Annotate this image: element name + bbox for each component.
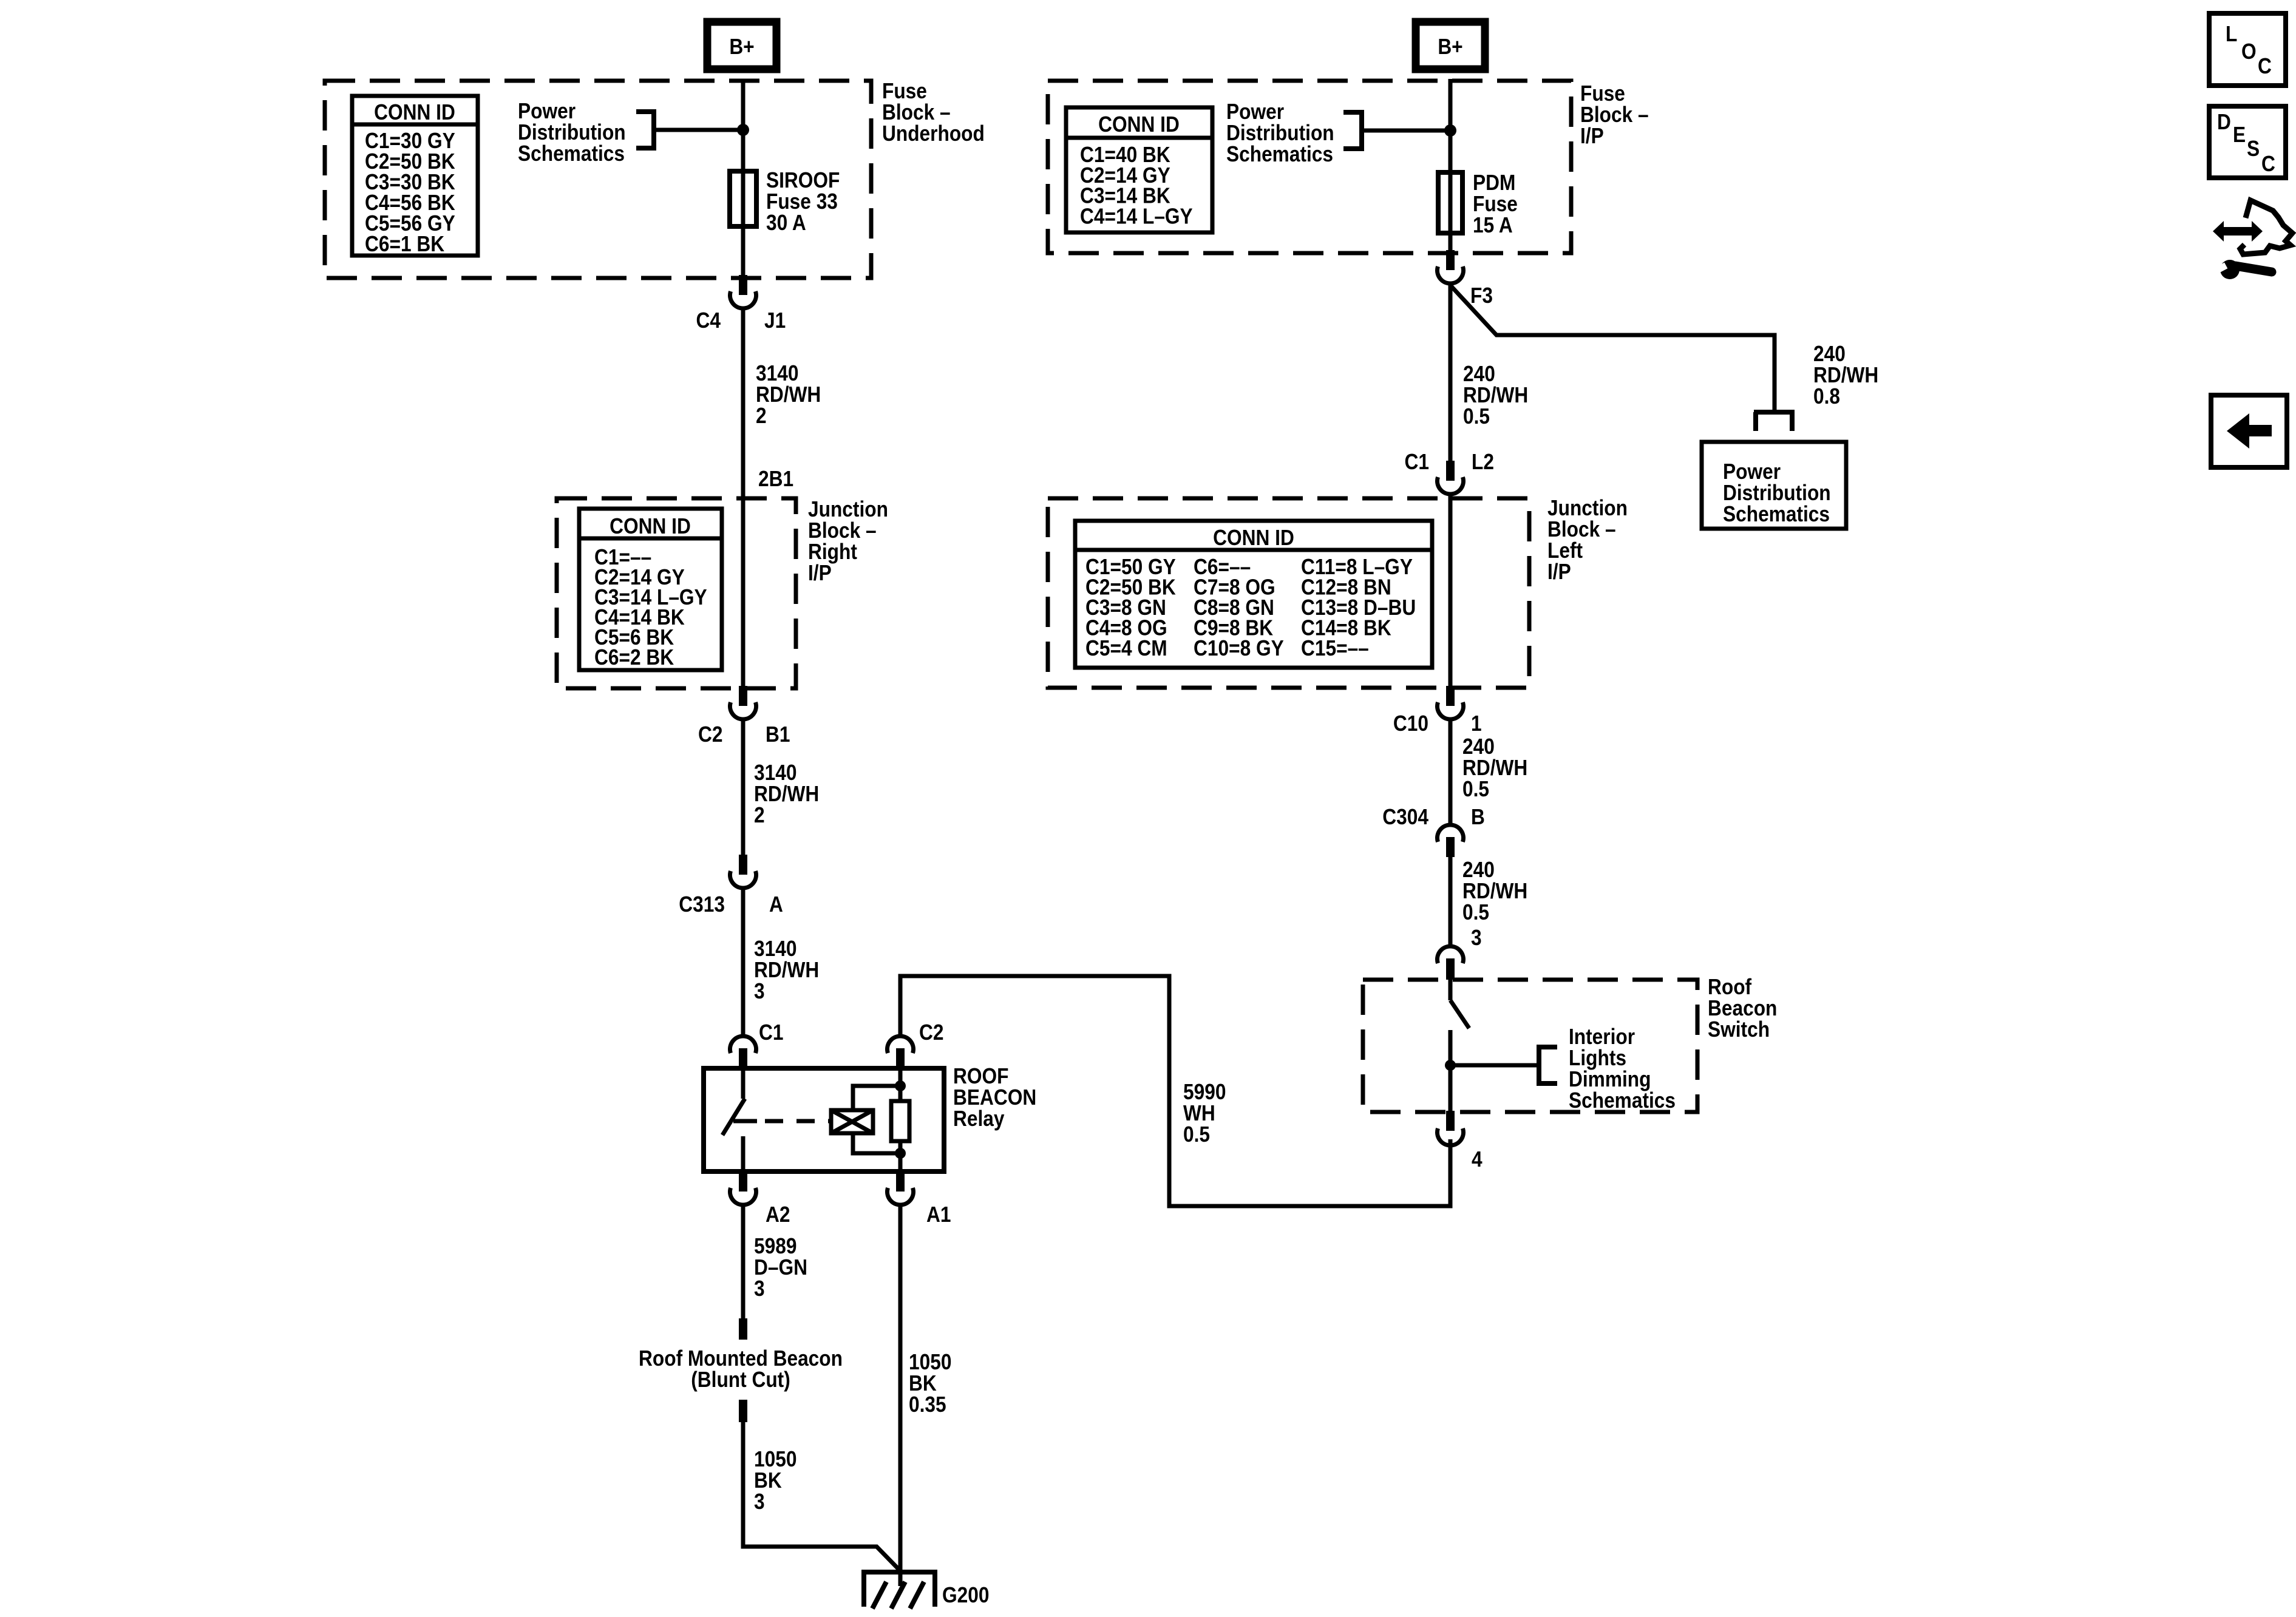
svg-text:B+: B+ bbox=[729, 35, 754, 59]
svg-text:C5=4 CM: C5=4 CM bbox=[1085, 636, 1167, 660]
switch wire to pin 4 bbox=[1449, 1030, 1453, 1112]
svg-text:A: A bbox=[769, 892, 783, 917]
svg-text:CONN ID: CONN ID bbox=[374, 100, 455, 124]
conn id table (junction block left i/p) bbox=[1075, 521, 1432, 668]
wire bracket to node bbox=[654, 128, 743, 132]
connector C1 / L2 bbox=[1446, 461, 1455, 481]
conn id table (junction block right i/p) bbox=[579, 509, 722, 670]
bracket to interior lights dimming bbox=[1539, 1045, 1557, 1086]
svg-text:CONN ID: CONN ID bbox=[1213, 526, 1294, 550]
svg-text:L: L bbox=[2226, 22, 2237, 46]
svg-text:0.5: 0.5 bbox=[1462, 777, 1489, 801]
connector C1 (relay) bbox=[730, 1036, 756, 1053]
svg-text:F3: F3 bbox=[1470, 283, 1493, 308]
svg-text:0.8: 0.8 bbox=[1813, 384, 1840, 408]
svg-text:O: O bbox=[2241, 39, 2257, 64]
wire 3140 RD/WH 2 (segment 2) bbox=[741, 719, 746, 856]
svg-text:1: 1 bbox=[1471, 711, 1482, 736]
connector A2 bbox=[739, 1171, 747, 1192]
svg-text:I/P: I/P bbox=[1547, 560, 1571, 584]
svg-text:Switch: Switch bbox=[1708, 1017, 1770, 1042]
switch contact stub bbox=[1449, 980, 1453, 1000]
svg-text:A2: A2 bbox=[766, 1202, 790, 1227]
connector C2 (relay) bbox=[888, 1036, 914, 1053]
svg-text:C304: C304 bbox=[1382, 805, 1428, 829]
icon wrench bbox=[2220, 260, 2240, 279]
svg-text:C2: C2 bbox=[698, 722, 722, 747]
junction dot on B+ feed (right) bbox=[1444, 124, 1456, 137]
coil lead top bbox=[853, 1086, 900, 1110]
wire 240 RD/WH 0.5 (to C1) bbox=[1449, 283, 1453, 461]
svg-text:Schematics: Schematics bbox=[518, 141, 625, 166]
svg-text:0.5: 0.5 bbox=[1463, 404, 1490, 429]
junction block - left i/p dashed box bbox=[1048, 498, 1529, 688]
svg-text:3: 3 bbox=[754, 979, 765, 1003]
icon vehicle view with arrow bbox=[2213, 221, 2263, 242]
fuse PDM 15A bbox=[1449, 175, 1453, 233]
svg-text:S: S bbox=[2247, 137, 2260, 161]
icon back arrow box bbox=[2211, 395, 2287, 467]
svg-text:0.5: 0.5 bbox=[1462, 900, 1489, 924]
wire 240 RD/WH 0.5 (segment 3) bbox=[1449, 857, 1453, 946]
svg-text:C4: C4 bbox=[696, 308, 721, 333]
conn id table (fuse block i/p) bbox=[1066, 107, 1212, 232]
connector C10 / 1 bbox=[1446, 686, 1455, 706]
blunt cut end (lower) bbox=[739, 1400, 747, 1422]
svg-text:I/P: I/P bbox=[808, 561, 832, 585]
svg-text:C6=1 BK: C6=1 BK bbox=[365, 232, 445, 256]
svg-text:G200: G200 bbox=[942, 1583, 989, 1607]
svg-text:Schematics: Schematics bbox=[1226, 142, 1333, 166]
icon DESC box bbox=[2209, 106, 2286, 178]
svg-text:CONN ID: CONN ID bbox=[1098, 112, 1180, 137]
svg-text:J1: J1 bbox=[764, 308, 786, 333]
svg-text:B: B bbox=[1471, 805, 1485, 829]
svg-text:15 A: 15 A bbox=[1473, 213, 1513, 237]
power symbol B+ (right) bbox=[1416, 22, 1485, 69]
bracket to power distribution (right) bbox=[1343, 110, 1362, 151]
resistor (relay internal) bbox=[891, 1101, 909, 1141]
connector F3 bbox=[1446, 250, 1455, 270]
svg-text:C2: C2 bbox=[919, 1020, 943, 1045]
relay ROOF BEACON box bbox=[704, 1068, 944, 1171]
svg-text:C: C bbox=[2261, 152, 2275, 176]
wire 1050 BK 3 bbox=[743, 1422, 899, 1570]
conn id table (fuse block underhood) bbox=[352, 96, 478, 256]
svg-text:C4=14 L–GY: C4=14 L–GY bbox=[1080, 205, 1193, 229]
relay switch blade bbox=[722, 1099, 745, 1135]
wire pin 4 down bbox=[1449, 1145, 1453, 1208]
power symbol B+ (left) bbox=[707, 22, 776, 69]
svg-text:B+: B+ bbox=[1438, 35, 1462, 59]
junction dot on B+ feed (left) bbox=[737, 124, 749, 136]
svg-text:C6=2 BK: C6=2 BK bbox=[594, 645, 674, 670]
wire inside junction block (right) bbox=[1449, 493, 1453, 686]
svg-text:A1: A1 bbox=[926, 1202, 951, 1227]
wire B+ to fuse PDM bbox=[1449, 79, 1453, 175]
relay actuation dashed link bbox=[765, 1119, 831, 1124]
junction dot (switch illumination tap) bbox=[1445, 1060, 1456, 1071]
fuse block - i/p dashed box bbox=[1048, 81, 1571, 253]
coil lead bottom bbox=[853, 1133, 900, 1153]
svg-text:I/P: I/P bbox=[1580, 124, 1604, 148]
svg-text:C10: C10 bbox=[1393, 711, 1428, 736]
svg-text:L2: L2 bbox=[1472, 450, 1494, 474]
relay switch fixed contact (bottom) bbox=[741, 1136, 746, 1171]
wire through resistor branch bbox=[898, 1068, 903, 1171]
wire 1050 BK 0.35 bbox=[898, 1204, 903, 1586]
bracket to power distribution (left) bbox=[636, 109, 654, 151]
junction block - right i/p dashed box bbox=[557, 498, 796, 688]
wire 5990 WH 0.5 bbox=[900, 976, 1450, 1206]
svg-text:0.5: 0.5 bbox=[1183, 1122, 1210, 1147]
relay switch fixed contact (top) bbox=[741, 1068, 746, 1099]
switch blade bbox=[1450, 1000, 1469, 1028]
junction dot coil bottom bbox=[895, 1148, 906, 1159]
wire 3140 RD/WH 2 (segment 1) bbox=[741, 308, 746, 501]
power distribution schematics box bbox=[1702, 442, 1846, 529]
wire fuse to connector F3 bbox=[1449, 233, 1453, 251]
connector 4 (roof beacon switch) bbox=[1446, 1111, 1455, 1131]
svg-text:3: 3 bbox=[754, 1490, 765, 1514]
junction dot coil top bbox=[895, 1080, 906, 1091]
relay coil bbox=[831, 1110, 873, 1133]
svg-text:CONN ID: CONN ID bbox=[610, 514, 691, 538]
ground G200 bbox=[861, 1572, 937, 1607]
svg-text:0.35: 0.35 bbox=[909, 1392, 946, 1417]
relay switch contact tick bbox=[733, 1119, 757, 1124]
wire 240 RD/WH 0.5 (segment 2) bbox=[1449, 719, 1453, 824]
svg-text:B1: B1 bbox=[766, 722, 790, 747]
svg-text:2: 2 bbox=[754, 803, 765, 827]
wire inside junction block (left) bbox=[741, 501, 746, 686]
svg-text:C15=––: C15=–– bbox=[1301, 636, 1369, 660]
connector C304 / B bbox=[1438, 825, 1464, 842]
svg-text:C10=8 GY: C10=8 GY bbox=[1194, 636, 1284, 660]
fuse SIROOF Fuse 33 30A bbox=[741, 174, 746, 226]
connector C2 / B1 bbox=[739, 686, 747, 706]
blunt cut end (upper) bbox=[739, 1318, 747, 1340]
wire bracket to node (right) bbox=[1362, 129, 1450, 133]
svg-text:3: 3 bbox=[1471, 926, 1482, 950]
svg-text:C1: C1 bbox=[759, 1020, 783, 1045]
svg-text:E: E bbox=[2233, 123, 2246, 147]
svg-text:4: 4 bbox=[1472, 1147, 1483, 1171]
svg-text:Relay: Relay bbox=[953, 1107, 1005, 1131]
wire B+ to fuse SIROOF bbox=[741, 79, 746, 174]
connector C4 / J1 bbox=[739, 275, 747, 295]
connector 3 (roof beacon switch) bbox=[1438, 946, 1464, 963]
svg-text:Schematics: Schematics bbox=[1569, 1088, 1676, 1113]
svg-text:C1: C1 bbox=[1405, 450, 1429, 474]
roof beacon switch dashed box bbox=[1363, 980, 1697, 1112]
svg-text:2: 2 bbox=[756, 404, 767, 428]
connector A1 bbox=[896, 1171, 905, 1192]
wire 3140 RD/WH 3 bbox=[741, 887, 746, 1036]
connector C313 / A bbox=[739, 855, 747, 875]
svg-text:3: 3 bbox=[754, 1276, 765, 1301]
icon LOC box bbox=[2209, 13, 2286, 86]
svg-text:Underhood: Underhood bbox=[882, 121, 985, 146]
wire 5989 D-GN 3 bbox=[741, 1204, 746, 1318]
svg-text:2B1: 2B1 bbox=[758, 467, 793, 491]
wire fuse to connector C4 bbox=[741, 226, 746, 276]
wire branch to power distribution schematics bbox=[1450, 285, 1775, 410]
svg-text:C313: C313 bbox=[679, 892, 725, 917]
fuse block - underhood dashed box bbox=[325, 81, 871, 278]
svg-text:Schematics: Schematics bbox=[1723, 502, 1830, 526]
svg-text:D: D bbox=[2217, 110, 2231, 134]
wire to interior lights bracket bbox=[1450, 1063, 1539, 1068]
svg-text:(Blunt Cut): (Blunt Cut) bbox=[691, 1368, 790, 1392]
off-page bracket above schematics box bbox=[1754, 412, 1795, 431]
svg-text:30 A: 30 A bbox=[766, 211, 806, 235]
svg-text:C: C bbox=[2258, 54, 2272, 78]
